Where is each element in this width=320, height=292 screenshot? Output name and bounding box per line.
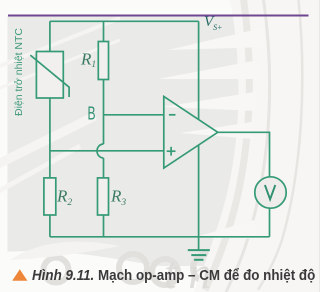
wire left branch top <box>49 21 51 51</box>
wire R3 to bottom rail <box>103 215 105 237</box>
wire hop to R3 <box>103 158 105 178</box>
resistor R3 body <box>98 178 109 215</box>
wire op-amp V+ supply drop <box>198 21 200 119</box>
op-amp U1 triangle <box>164 96 218 168</box>
op-amp V- supply pin <box>198 145 200 237</box>
svg-text:Hình 9.11. Mạch op-amp – CM để: Hình 9.11. Mạch op-amp – CM để đo nhiệt … <box>32 267 316 284</box>
white bottom boundary sweep <box>0 236 319 292</box>
purple header rule <box>8 15 309 17</box>
op-amp plus sign <box>167 147 176 156</box>
wire R1 branch top <box>103 21 105 41</box>
wire R2 to bottom rail <box>49 215 51 237</box>
wire top rail V_S+ <box>50 20 199 22</box>
caption marker triangle <box>12 269 27 281</box>
wire left branch middle <box>49 98 51 178</box>
label voltmeter V <box>265 185 275 199</box>
resistor R1 body <box>98 42 108 80</box>
watermark swirl right <box>194 0 319 292</box>
ground bars <box>188 250 210 260</box>
thermistor RT body <box>36 52 63 99</box>
wire R1 to node B <box>103 80 105 145</box>
svg-text:B: B <box>88 104 96 124</box>
op-amp minus sign <box>169 114 176 116</box>
wire voltmeter to bottom rail <box>269 208 271 237</box>
wire crossover hop <box>97 144 103 158</box>
watermark bottom-left swirl <box>10 242 120 260</box>
ghost watermark arcs on bottom strip <box>44 254 266 285</box>
wire op-amp output <box>218 132 270 177</box>
wire non-inverting input <box>50 150 164 152</box>
watermark feather wedges <box>158 28 266 239</box>
thermistor RT diagonal <box>30 55 69 97</box>
wire bottom rail <box>50 236 270 238</box>
voltmeter V body <box>255 177 286 208</box>
resistor R2 body <box>44 178 56 215</box>
watermark diagonal streaks top-left <box>0 18 120 196</box>
wire inverting input from node B <box>104 114 164 116</box>
svg-text:Điện trở nhiệt NTC: Điện trở nhiệt NTC <box>13 28 25 116</box>
ground stem <box>198 237 200 250</box>
